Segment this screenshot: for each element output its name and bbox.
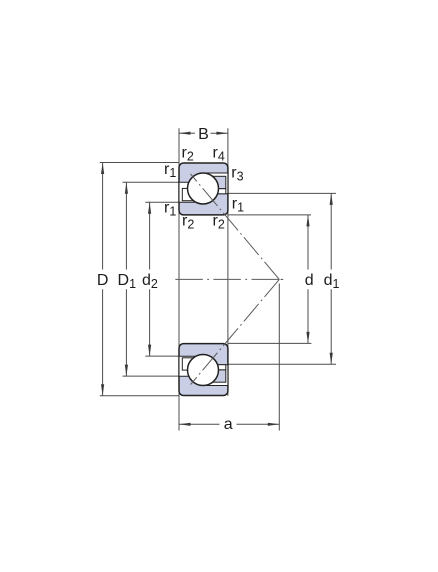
- svg-text:B: B: [198, 126, 209, 143]
- svg-text:a: a: [224, 416, 233, 433]
- svg-text:D: D: [97, 272, 109, 289]
- svg-text:d: d: [305, 272, 314, 289]
